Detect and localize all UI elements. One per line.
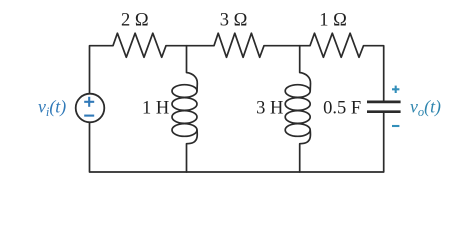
svg-text:2 Ω: 2 Ω [121,11,149,31]
svg-text:1 Ω: 1 Ω [319,11,347,31]
svg-text:vo(t): vo(t) [410,97,441,120]
svg-text:vi(t): vi(t) [38,97,66,120]
svg-text:1 H: 1 H [142,99,169,119]
svg-text:3 Ω: 3 Ω [220,11,248,31]
svg-text:3 H: 3 H [256,99,283,119]
svg-text:0.5 F: 0.5 F [323,99,361,119]
